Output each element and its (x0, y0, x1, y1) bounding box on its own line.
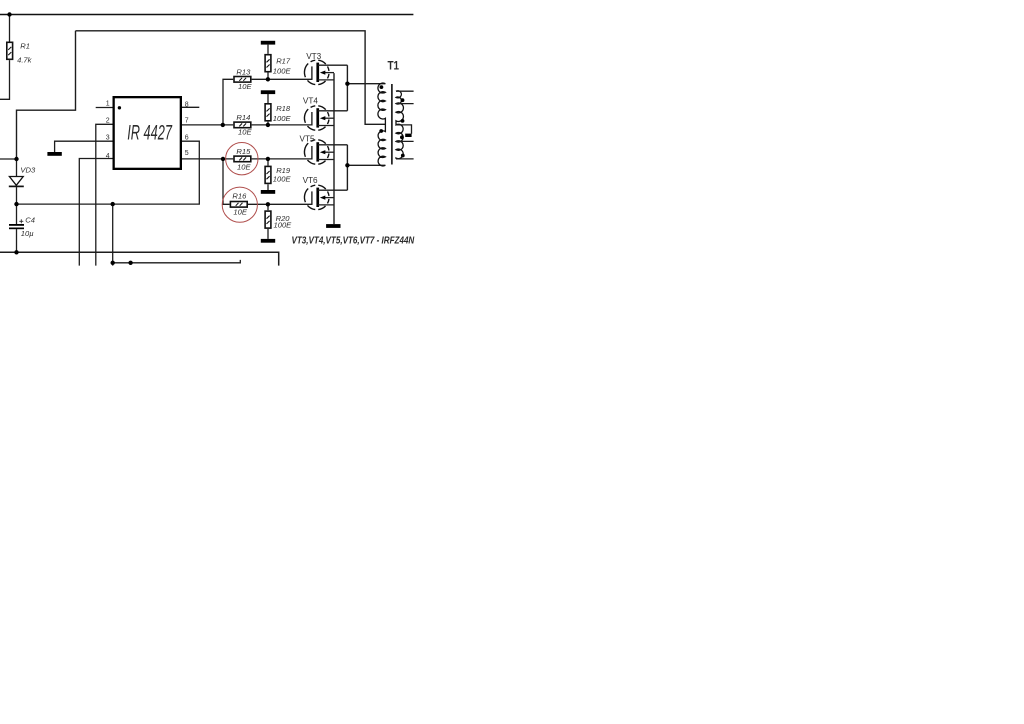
wire R18 leads (267, 94, 269, 125)
svg-text:100E: 100E (273, 67, 292, 76)
svg-text:C4: C4 (25, 216, 35, 225)
transistor VT6 (268, 185, 348, 209)
secondary phase dot 2 (401, 119, 405, 123)
wire R17 leads (267, 45, 269, 80)
wire IC pin6 route down and left (113, 141, 200, 204)
pin 1 marker dot (118, 106, 121, 109)
node pin6 route (111, 202, 115, 206)
red circle highlight around R15 (226, 143, 258, 175)
svg-text:1: 1 (106, 101, 110, 108)
wire drain pair A to primary top (347, 83, 385, 85)
wire R1 top lead (9, 15, 11, 42)
resistor R19 (265, 166, 271, 183)
resistor R17 (265, 55, 271, 72)
wire second rail to transformer center tap (76, 31, 386, 125)
wire IC pin1 stub (96, 107, 113, 109)
wire vertical from node y204 down (112, 204, 114, 266)
transistor VT4 (268, 106, 348, 130)
resistor R13 (234, 77, 251, 83)
resistor R16 (230, 202, 247, 208)
primary phase dot top (380, 85, 384, 89)
wire top supply rail (0, 14, 413, 16)
svg-text:7: 7 (185, 118, 189, 125)
node lower bus left (111, 261, 115, 265)
wire secondary tap 2 (396, 103, 414, 105)
node R14 R18 (266, 123, 270, 127)
node pin5 branch (221, 157, 225, 161)
svg-text:T1: T1 (388, 60, 400, 73)
svg-text:8: 8 (185, 101, 189, 108)
svg-text:VT5: VT5 (300, 134, 315, 143)
svg-text:R18: R18 (276, 104, 291, 113)
secondary phase dot 4 (401, 154, 405, 158)
svg-text:VT4: VT4 (303, 97, 318, 106)
rail bar below R19 (261, 190, 275, 194)
wire common source rail to ground (333, 73, 335, 224)
resistor R18 (265, 104, 271, 121)
node drain pair B (345, 163, 349, 167)
svg-text:10E: 10E (238, 128, 252, 137)
svg-text:VD3: VD3 (20, 166, 36, 175)
resistor R15 (234, 156, 251, 162)
svg-text:5: 5 (185, 150, 189, 157)
svg-text:3: 3 (106, 135, 110, 142)
resistor R1 (7, 42, 13, 59)
wire secondary tap 5 (396, 158, 414, 160)
secondary phase dot 1 (401, 98, 405, 102)
wire VD3 cathode lead (16, 187, 18, 204)
wire drain pair B to primary bottom (347, 164, 385, 166)
wire IC pin8 stub (182, 106, 199, 108)
wire secondary tap 3 with link (396, 125, 412, 134)
svg-text:VT6: VT6 (303, 176, 318, 185)
svg-text:10E: 10E (237, 163, 251, 172)
node VD3 anode (14, 157, 18, 161)
wire IC pin5 row to R15 (182, 158, 233, 160)
svg-text:R17: R17 (276, 56, 291, 65)
svg-text:100E: 100E (273, 174, 292, 183)
transformer core (391, 84, 393, 165)
wire node junction row y204 (17, 203, 113, 205)
wire R16 to R20 junction (248, 203, 268, 205)
rail bar below R20 (261, 239, 275, 243)
secondary phase dot 3 (400, 135, 404, 139)
thick link bar on secondary (405, 134, 411, 137)
svg-text:100E: 100E (274, 221, 293, 230)
node R13 R17 (266, 77, 270, 81)
wire IC pin4 down (79, 159, 112, 266)
ground bar for MOSFET sources (326, 224, 340, 228)
wire VT3 VT4 drain vertical (346, 65, 348, 111)
svg-text:VT3: VT3 (306, 52, 321, 61)
wire second rail left leg down to VD3 anode (17, 31, 76, 159)
transformer T1 primary winding (378, 83, 386, 166)
svg-text:6: 6 (185, 135, 189, 142)
node C4 bottom bus (14, 250, 18, 254)
svg-text:4.7k: 4.7k (17, 55, 33, 64)
svg-text:R16: R16 (232, 191, 247, 200)
wire IC pin2 down (96, 124, 113, 265)
rail bar above R17 (261, 41, 275, 45)
resistor R14 (234, 122, 251, 128)
resistor R20 (265, 211, 271, 228)
diode VD3 (9, 177, 24, 187)
wire IC pin3 to ground (55, 141, 113, 152)
node drain pair A (345, 82, 349, 86)
wire secondary tap 1 (396, 90, 414, 92)
op-amp U1 IR4427 driver IC (114, 97, 181, 169)
svg-text:R15: R15 (236, 147, 251, 156)
svg-text:VT3,VT4,VT5,VT6,VT7 - IRFZ44N: VT3,VT4,VT5,VT6,VT7 - IRFZ44N (292, 235, 415, 246)
svg-text:R14: R14 (236, 113, 250, 122)
node VD3 cathode C4 (14, 202, 18, 206)
wire IC pin7 row to R14 (182, 124, 233, 126)
ground pin3 rail bar (47, 152, 61, 156)
wire VD3 anode lead (16, 159, 18, 177)
svg-text:10µ: 10µ (21, 229, 34, 238)
wire R14 to R18 junction (252, 124, 268, 126)
svg-text:4: 4 (106, 153, 110, 160)
wire R13 to R17 junction (252, 78, 268, 80)
svg-text:100E: 100E (273, 114, 292, 123)
wire R20 leads (267, 204, 269, 239)
node supply rail R1 (7, 12, 11, 16)
primary phase dot bottom (379, 129, 383, 133)
node R15 R19 (266, 157, 270, 161)
wire bottom bus (0, 252, 279, 265)
svg-text:R13: R13 (236, 67, 251, 76)
svg-text:2: 2 (106, 117, 110, 124)
red circle highlight around R16 (222, 187, 257, 222)
node lower bus second (128, 261, 132, 265)
rail bar above R18 (261, 90, 275, 94)
wire R15 to R19 junction (252, 158, 268, 160)
wire R1 bottom lead to left edge (0, 60, 10, 99)
wire lower horizontal bus (113, 260, 241, 263)
wire branch up from pin7 to R13 row (223, 79, 233, 125)
transistor VT3 (268, 60, 348, 84)
capacitor C4 (9, 224, 24, 229)
node pin7 branch (221, 123, 225, 127)
transformer T1 secondary winding (396, 91, 403, 159)
svg-text:IR 4427: IR 4427 (127, 120, 173, 144)
wire C4 bottom lead (16, 229, 18, 252)
node R16 R20 (266, 202, 270, 206)
svg-text:R1: R1 (20, 42, 30, 51)
svg-text:10E: 10E (233, 208, 247, 217)
wire VT5 VT6 drain vertical (346, 145, 348, 190)
wire VD3 anode row to left edge (0, 158, 17, 160)
wire secondary tap 4 (396, 140, 414, 142)
transistor VT5 (268, 140, 348, 164)
svg-text:10E: 10E (238, 82, 252, 91)
wire branch down from pin5 to R16 row (223, 159, 230, 204)
wire C4 top lead (16, 204, 18, 224)
wire R19 leads (267, 159, 269, 190)
